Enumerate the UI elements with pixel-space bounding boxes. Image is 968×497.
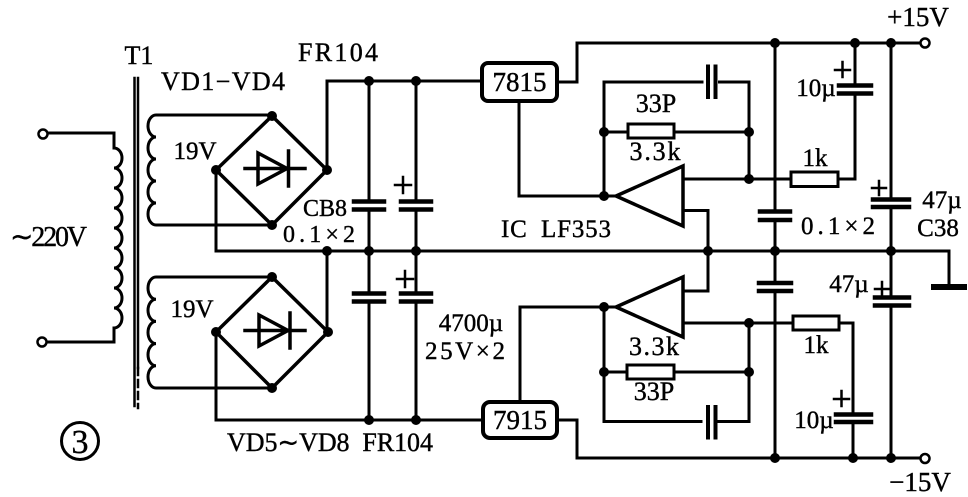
svg-text:3: 3 xyxy=(72,424,89,461)
svg-text:+15V: +15V xyxy=(887,2,949,32)
svg-text:VD5∼VD8 FR104: VD5∼VD8 FR104 xyxy=(227,428,433,457)
svg-text:IC LF353: IC LF353 xyxy=(501,216,611,243)
svg-text:19V: 19V xyxy=(173,138,216,165)
svg-text:10µ: 10µ xyxy=(794,407,833,434)
svg-text:1k: 1k xyxy=(804,332,830,359)
svg-text:33P: 33P xyxy=(636,89,676,118)
svg-text:10µ: 10µ xyxy=(796,75,835,102)
svg-text:3.3k: 3.3k xyxy=(629,332,679,361)
svg-text:FR104: FR104 xyxy=(298,38,378,67)
svg-text:T1: T1 xyxy=(125,41,154,70)
svg-text:47µ: 47µ xyxy=(922,187,961,214)
svg-text:1k: 1k xyxy=(803,145,829,172)
svg-text:C38: C38 xyxy=(917,215,959,242)
svg-text:−15V: −15V xyxy=(889,467,951,497)
svg-text:7815: 7815 xyxy=(493,67,547,97)
svg-text:VD1−VD4: VD1−VD4 xyxy=(161,67,285,96)
svg-text:0.1×2: 0.1×2 xyxy=(283,222,355,248)
svg-text:7915: 7915 xyxy=(493,405,547,435)
svg-text:CB8: CB8 xyxy=(303,196,347,222)
svg-text:3.3k: 3.3k xyxy=(630,137,681,166)
svg-text:0.1×2: 0.1×2 xyxy=(801,213,875,240)
svg-text:25V×2: 25V×2 xyxy=(425,338,505,365)
svg-text:4700µ: 4700µ xyxy=(439,310,503,337)
svg-text:33P: 33P xyxy=(634,377,674,406)
svg-text:47µ: 47µ xyxy=(829,271,868,298)
svg-text:19V: 19V xyxy=(170,296,213,323)
svg-text:∼220V: ∼220V xyxy=(10,222,87,253)
